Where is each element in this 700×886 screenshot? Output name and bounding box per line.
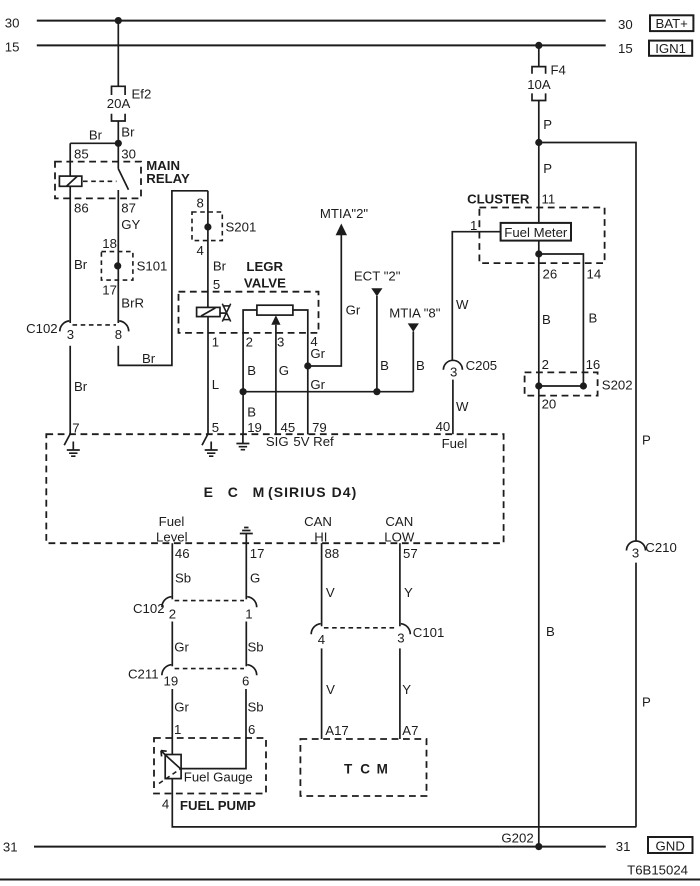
svg-text:26: 26 xyxy=(543,267,558,282)
svg-text:Gr: Gr xyxy=(310,377,325,392)
svg-text:40: 40 xyxy=(436,419,451,434)
svg-text:P: P xyxy=(642,433,651,448)
svg-text:G202: G202 xyxy=(501,831,533,846)
svg-text:15: 15 xyxy=(5,39,20,54)
svg-text:G: G xyxy=(250,571,260,586)
svg-text:6: 6 xyxy=(248,722,255,737)
svg-text:14: 14 xyxy=(587,267,602,282)
svg-text:46: 46 xyxy=(175,546,190,561)
svg-text:V: V xyxy=(326,682,335,697)
svg-text:Sb: Sb xyxy=(175,571,191,586)
svg-text:SIG: SIG xyxy=(266,434,289,449)
svg-text:10A: 10A xyxy=(527,77,551,92)
svg-text:CAN: CAN xyxy=(385,514,413,529)
svg-text:3: 3 xyxy=(277,334,284,349)
svg-text:30: 30 xyxy=(5,15,20,30)
svg-text:86: 86 xyxy=(74,201,89,216)
svg-text:GND: GND xyxy=(656,838,685,853)
svg-text:31: 31 xyxy=(616,839,631,854)
svg-text:MTIA"2": MTIA"2" xyxy=(320,206,369,221)
svg-text:S201: S201 xyxy=(226,220,257,235)
svg-text:30: 30 xyxy=(121,146,136,161)
svg-text:P: P xyxy=(543,161,552,176)
svg-text:79: 79 xyxy=(312,420,327,435)
svg-text:Gr: Gr xyxy=(174,639,189,654)
svg-text:ECM(SIRIUS D4): ECM(SIRIUS D4) xyxy=(204,484,358,500)
svg-text:Br: Br xyxy=(213,259,227,274)
svg-text:T6B15024: T6B15024 xyxy=(627,862,688,877)
svg-text:Br: Br xyxy=(121,125,135,140)
svg-text:Fuel: Fuel xyxy=(442,436,468,451)
svg-text:Gr: Gr xyxy=(174,699,189,714)
svg-text:17: 17 xyxy=(102,282,117,297)
svg-text:30: 30 xyxy=(618,17,633,32)
svg-text:S202: S202 xyxy=(602,378,633,393)
svg-text:C101: C101 xyxy=(413,625,445,640)
svg-text:Gr: Gr xyxy=(346,302,361,317)
svg-text:5: 5 xyxy=(212,420,219,435)
svg-text:Fuel: Fuel xyxy=(159,514,185,529)
svg-text:F4: F4 xyxy=(551,63,566,78)
svg-text:A7: A7 xyxy=(402,723,418,738)
svg-text:1: 1 xyxy=(245,607,252,622)
svg-text:85: 85 xyxy=(74,146,89,161)
svg-text:1: 1 xyxy=(470,218,477,233)
svg-text:FUEL PUMP: FUEL PUMP xyxy=(180,798,256,813)
svg-text:ECT "2": ECT "2" xyxy=(354,268,401,283)
svg-text:57: 57 xyxy=(403,546,418,561)
svg-text:3: 3 xyxy=(67,327,74,342)
svg-text:17: 17 xyxy=(250,546,265,561)
svg-text:VALVE: VALVE xyxy=(244,276,286,291)
svg-text:B: B xyxy=(380,358,389,373)
svg-text:19: 19 xyxy=(247,420,262,435)
svg-text:C205: C205 xyxy=(466,358,498,373)
svg-text:LEGR: LEGR xyxy=(246,259,283,274)
svg-text:5V Ref: 5V Ref xyxy=(293,434,334,449)
svg-text:3: 3 xyxy=(397,630,404,645)
svg-text:88: 88 xyxy=(325,546,340,561)
svg-text:B: B xyxy=(416,358,425,373)
svg-text:19: 19 xyxy=(164,674,179,689)
svg-text:3: 3 xyxy=(632,545,639,560)
svg-text:LOW: LOW xyxy=(384,529,415,544)
svg-text:BAT+: BAT+ xyxy=(656,16,689,31)
svg-text:TCM: TCM xyxy=(344,761,388,776)
svg-text:8: 8 xyxy=(115,327,122,342)
svg-text:B: B xyxy=(247,363,256,378)
svg-text:15: 15 xyxy=(618,41,633,56)
svg-text:G: G xyxy=(279,363,289,378)
svg-text:Fuel Gauge: Fuel Gauge xyxy=(184,770,253,785)
svg-text:20: 20 xyxy=(542,396,557,411)
svg-text:S101: S101 xyxy=(137,259,168,274)
svg-text:GY: GY xyxy=(121,217,140,232)
svg-text:B: B xyxy=(589,311,598,326)
svg-text:W: W xyxy=(456,297,469,312)
svg-text:Sb: Sb xyxy=(248,699,264,714)
svg-text:2: 2 xyxy=(246,334,253,349)
svg-text:IGN1: IGN1 xyxy=(655,41,686,56)
svg-text:RELAY: RELAY xyxy=(146,171,190,186)
svg-text:Br: Br xyxy=(89,127,103,142)
svg-text:31: 31 xyxy=(3,840,18,855)
svg-text:MTIA "8": MTIA "8" xyxy=(389,306,440,321)
svg-text:P: P xyxy=(642,695,651,710)
svg-text:W: W xyxy=(456,399,469,414)
svg-text:16: 16 xyxy=(586,357,601,372)
svg-text:1: 1 xyxy=(174,722,181,737)
svg-text:CLUSTER: CLUSTER xyxy=(467,191,530,206)
svg-text:CAN: CAN xyxy=(304,514,332,529)
svg-text:C102: C102 xyxy=(133,601,165,616)
svg-text:1: 1 xyxy=(212,334,219,349)
svg-text:L: L xyxy=(212,377,219,392)
svg-text:4: 4 xyxy=(197,243,204,258)
svg-text:Gr: Gr xyxy=(310,346,325,361)
svg-text:2: 2 xyxy=(542,357,549,372)
svg-text:Y: Y xyxy=(404,585,413,600)
svg-text:4: 4 xyxy=(318,632,325,647)
svg-text:C211: C211 xyxy=(128,667,159,682)
svg-text:Sb: Sb xyxy=(248,639,264,654)
svg-text:6: 6 xyxy=(242,674,249,689)
svg-text:P: P xyxy=(543,117,552,132)
svg-text:HI: HI xyxy=(314,529,327,544)
svg-text:A17: A17 xyxy=(325,723,348,738)
svg-text:C102: C102 xyxy=(26,321,58,336)
svg-text:11: 11 xyxy=(542,191,556,206)
svg-text:BrR: BrR xyxy=(121,295,144,310)
svg-text:V: V xyxy=(326,585,335,600)
svg-text:8: 8 xyxy=(197,195,204,210)
svg-text:Br: Br xyxy=(74,257,88,272)
svg-text:45: 45 xyxy=(281,420,296,435)
svg-text:Br: Br xyxy=(142,351,156,366)
svg-text:4: 4 xyxy=(162,797,169,812)
svg-text:C210: C210 xyxy=(645,540,677,555)
svg-text:18: 18 xyxy=(102,236,117,251)
svg-text:Ef2: Ef2 xyxy=(132,86,152,101)
svg-text:3: 3 xyxy=(450,364,457,379)
svg-text:Level: Level xyxy=(156,529,188,544)
svg-text:B: B xyxy=(542,312,551,327)
svg-text:5: 5 xyxy=(213,277,220,292)
svg-text:Fuel Meter: Fuel Meter xyxy=(504,225,568,240)
svg-text:2: 2 xyxy=(169,607,176,622)
svg-text:B: B xyxy=(247,404,256,419)
svg-text:87: 87 xyxy=(121,201,136,216)
svg-text:Br: Br xyxy=(74,379,88,394)
svg-text:B: B xyxy=(546,624,555,639)
svg-text:20A: 20A xyxy=(107,96,131,111)
svg-text:Y: Y xyxy=(402,682,411,697)
